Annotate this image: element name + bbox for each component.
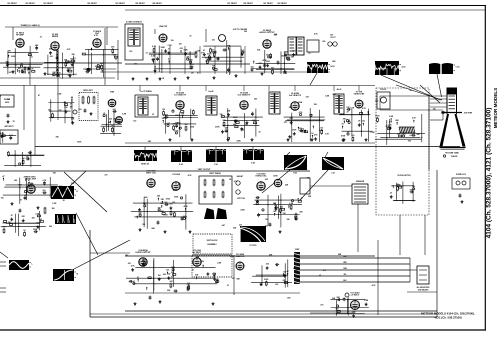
svg-text:TUNER (Ch. 94A95-3): TUNER (Ch. 94A95-3) bbox=[20, 24, 39, 27]
svg-text:330K: 330K bbox=[77, 142, 82, 144]
svg-text:2.2M: 2.2M bbox=[370, 132, 374, 134]
svg-text:VIDEO 60: VIDEO 60 bbox=[141, 164, 149, 166]
svg-text:330K: 330K bbox=[11, 56, 16, 58]
svg-text:S25 FRONT: S25 FRONT bbox=[135, 3, 145, 5]
svg-text:J 60: J 60 bbox=[331, 173, 335, 175]
svg-text:.001: .001 bbox=[177, 184, 181, 186]
svg-text:HEIGHT: HEIGHT bbox=[237, 176, 244, 178]
svg-text:E 60: E 60 bbox=[179, 164, 183, 166]
svg-text:METEOR MODELS: METEOR MODELS bbox=[493, 88, 498, 129]
svg-text:1/2W UNLESS: 1/2W UNLESS bbox=[418, 289, 429, 291]
svg-text:470K: 470K bbox=[174, 129, 179, 132]
svg-text:.047: .047 bbox=[215, 278, 219, 281]
svg-text:.047: .047 bbox=[166, 122, 170, 125]
svg-text:21ALP4: 21ALP4 bbox=[451, 155, 458, 158]
svg-text:.01: .01 bbox=[145, 52, 148, 54]
svg-text:.005: .005 bbox=[407, 140, 411, 142]
svg-text:470K: 470K bbox=[273, 174, 278, 177]
svg-text:F 60: F 60 bbox=[214, 164, 218, 166]
svg-text:.01: .01 bbox=[14, 65, 17, 67]
svg-text:.001: .001 bbox=[8, 72, 12, 74]
svg-text:270: 270 bbox=[239, 225, 242, 227]
svg-text:330K: 330K bbox=[188, 60, 193, 62]
svg-text:120: 120 bbox=[162, 109, 165, 111]
svg-text:47: 47 bbox=[3, 175, 5, 178]
svg-text:.001: .001 bbox=[172, 202, 176, 204]
svg-text:470K: 470K bbox=[207, 52, 212, 55]
svg-text:.001: .001 bbox=[169, 204, 173, 206]
svg-text:S24 FRONT: S24 FRONT bbox=[152, 2, 162, 5]
svg-text:.01: .01 bbox=[308, 53, 311, 55]
svg-text:.001: .001 bbox=[250, 66, 254, 68]
svg-text:S27 FRONT: S27 FRONT bbox=[227, 3, 237, 5]
svg-text:270: 270 bbox=[284, 122, 287, 124]
svg-text:4.5 MHz SOUND IF: 4.5 MHz SOUND IF bbox=[126, 21, 143, 24]
svg-text:2.2M: 2.2M bbox=[364, 300, 368, 302]
svg-text:560: 560 bbox=[49, 226, 52, 228]
svg-text:100: 100 bbox=[7, 99, 10, 101]
svg-text:S23 FRONT: S23 FRONT bbox=[25, 3, 35, 5]
svg-text:S25 FRONT: S25 FRONT bbox=[243, 3, 253, 5]
svg-text:.001: .001 bbox=[190, 64, 194, 66]
svg-text:560: 560 bbox=[336, 309, 339, 311]
svg-text:560: 560 bbox=[49, 49, 52, 51]
svg-text:.01: .01 bbox=[227, 285, 230, 287]
svg-text:.01: .01 bbox=[396, 184, 399, 186]
svg-text:120: 120 bbox=[433, 109, 436, 111]
svg-text:.001: .001 bbox=[127, 263, 131, 265]
svg-text:HORIZ OSC: HORIZ OSC bbox=[255, 176, 267, 178]
svg-text:2.2M: 2.2M bbox=[67, 69, 71, 71]
svg-text:47: 47 bbox=[28, 179, 30, 182]
svg-text:2.2M: 2.2M bbox=[164, 115, 168, 117]
svg-text:100: 100 bbox=[158, 275, 161, 277]
svg-text:560: 560 bbox=[145, 197, 148, 199]
svg-text:120: 120 bbox=[191, 73, 194, 75]
svg-text:.001: .001 bbox=[275, 284, 279, 286]
svg-text:47: 47 bbox=[152, 113, 154, 116]
svg-text:47: 47 bbox=[137, 276, 139, 279]
svg-text:.001: .001 bbox=[112, 109, 116, 111]
svg-text:120: 120 bbox=[347, 131, 350, 133]
svg-text:330K: 330K bbox=[236, 140, 241, 142]
svg-text:330K: 330K bbox=[33, 229, 38, 231]
svg-text:.047: .047 bbox=[305, 96, 309, 99]
svg-text:.047: .047 bbox=[169, 280, 173, 283]
svg-text:FOCUS: FOCUS bbox=[380, 89, 387, 91]
svg-text:VERT BLOCK: VERT BLOCK bbox=[207, 240, 219, 242]
svg-text:47: 47 bbox=[190, 35, 192, 38]
svg-text:.047: .047 bbox=[8, 221, 12, 224]
svg-text:330K: 330K bbox=[190, 127, 195, 129]
svg-text:270: 270 bbox=[201, 53, 204, 55]
svg-text:4104 (Ch. 528.37000), 4121 (Ch: 4104 (Ch. 528.37000), 4121 (Ch. 528.3710… bbox=[486, 108, 493, 239]
svg-text:560: 560 bbox=[164, 202, 167, 204]
svg-text:.005: .005 bbox=[265, 264, 269, 266]
svg-text:.001: .001 bbox=[18, 185, 22, 187]
svg-text:DAMPER: DAMPER bbox=[236, 255, 245, 258]
svg-text:120: 120 bbox=[134, 64, 137, 66]
svg-text:VERT LIN: VERT LIN bbox=[237, 198, 245, 200]
svg-text:JACK: JACK bbox=[5, 101, 10, 104]
svg-text:.005: .005 bbox=[179, 48, 183, 50]
svg-text:.01: .01 bbox=[73, 58, 76, 60]
svg-text:ASSEMBLY: ASSEMBLY bbox=[207, 243, 217, 246]
svg-text:330K: 330K bbox=[113, 118, 118, 120]
svg-text:470K: 470K bbox=[262, 59, 267, 62]
svg-text:47: 47 bbox=[301, 197, 303, 200]
svg-text:470K: 470K bbox=[171, 266, 176, 269]
svg-text:47: 47 bbox=[287, 270, 289, 273]
svg-text:330K: 330K bbox=[174, 196, 179, 198]
svg-text:RATIO DET: RATIO DET bbox=[83, 89, 93, 92]
svg-text:VERT TRANS: VERT TRANS bbox=[209, 172, 221, 175]
svg-text:100: 100 bbox=[309, 114, 312, 116]
svg-text:47: 47 bbox=[11, 214, 13, 217]
svg-text:470K: 470K bbox=[215, 125, 220, 128]
svg-text:.047: .047 bbox=[142, 259, 146, 262]
svg-text:120: 120 bbox=[299, 128, 302, 130]
svg-text:.01: .01 bbox=[39, 37, 42, 39]
svg-text:.005: .005 bbox=[264, 179, 268, 181]
svg-text:2.2M: 2.2M bbox=[57, 94, 61, 96]
svg-text:.01: .01 bbox=[192, 270, 195, 272]
svg-text:120: 120 bbox=[142, 224, 145, 226]
svg-text:2.2M: 2.2M bbox=[52, 203, 56, 205]
svg-text:PHONO MOTOR: PHONO MOTOR bbox=[398, 175, 412, 177]
svg-text:VIDEO DET: VIDEO DET bbox=[354, 94, 366, 96]
svg-text:2nd VIDEO IF: 2nd VIDEO IF bbox=[238, 95, 251, 97]
svg-text:270: 270 bbox=[259, 63, 262, 65]
svg-text:470K: 470K bbox=[175, 114, 180, 117]
svg-text:S23 FRONT: S23 FRONT bbox=[277, 3, 287, 5]
svg-text:.01: .01 bbox=[409, 135, 412, 137]
svg-text:H 60: H 60 bbox=[293, 173, 297, 175]
svg-text:.005: .005 bbox=[95, 66, 99, 68]
svg-text:2.2M: 2.2M bbox=[122, 114, 126, 116]
svg-text:100: 100 bbox=[1, 197, 4, 199]
svg-text:.005: .005 bbox=[39, 219, 43, 221]
svg-text:100: 100 bbox=[129, 51, 132, 53]
svg-text:100: 100 bbox=[20, 64, 23, 66]
svg-text:VERT OSC: VERT OSC bbox=[146, 173, 157, 175]
svg-text:560: 560 bbox=[52, 208, 55, 210]
svg-text:1st IF TRANS: 1st IF TRANS bbox=[140, 90, 152, 93]
svg-text:.047: .047 bbox=[21, 157, 25, 160]
svg-text:470K: 470K bbox=[24, 175, 29, 178]
svg-text:.047: .047 bbox=[108, 121, 112, 124]
svg-text:S23 FRONT: S23 FRONT bbox=[7, 3, 17, 5]
svg-text:K 15750: K 15750 bbox=[250, 245, 257, 247]
svg-text:S22 FRONT: S22 FRONT bbox=[87, 3, 97, 5]
svg-text:47: 47 bbox=[212, 49, 214, 52]
svg-text:2.2M: 2.2M bbox=[319, 130, 323, 132]
svg-text:560: 560 bbox=[14, 180, 17, 182]
svg-text:47: 47 bbox=[64, 101, 66, 104]
svg-text:560: 560 bbox=[32, 217, 35, 219]
svg-text:470K: 470K bbox=[183, 205, 188, 208]
svg-text:PICTURE TUBE: PICTURE TUBE bbox=[445, 153, 459, 155]
svg-text:120: 120 bbox=[362, 121, 365, 123]
svg-text:270: 270 bbox=[410, 189, 413, 191]
svg-text:560: 560 bbox=[412, 186, 415, 188]
svg-text:330K: 330K bbox=[233, 117, 238, 119]
svg-text:V8B: V8B bbox=[110, 92, 114, 94]
svg-text:47: 47 bbox=[319, 274, 321, 277]
svg-text:.001: .001 bbox=[166, 270, 170, 272]
svg-text:560: 560 bbox=[171, 272, 174, 274]
svg-text:S27 FRONT: S27 FRONT bbox=[263, 3, 273, 5]
svg-text:.047: .047 bbox=[295, 268, 299, 271]
svg-text:100: 100 bbox=[265, 219, 268, 221]
svg-text:.01: .01 bbox=[103, 113, 106, 115]
svg-text:2.2M: 2.2M bbox=[325, 95, 329, 97]
svg-text:.01: .01 bbox=[30, 57, 33, 59]
svg-text:.001: .001 bbox=[49, 56, 53, 58]
svg-text:A 60: A 60 bbox=[402, 65, 406, 68]
svg-text:.005: .005 bbox=[322, 41, 326, 43]
svg-text:47: 47 bbox=[347, 111, 349, 114]
svg-text:HV RECT: HV RECT bbox=[193, 252, 203, 254]
svg-text:RF AMP: RF AMP bbox=[16, 34, 24, 37]
svg-text:560: 560 bbox=[65, 191, 68, 193]
svg-text:270: 270 bbox=[59, 110, 62, 112]
svg-text:270: 270 bbox=[438, 100, 441, 102]
svg-text:.01: .01 bbox=[71, 97, 74, 99]
svg-text:S23 FRONT: S23 FRONT bbox=[115, 3, 125, 5]
svg-text:330K: 330K bbox=[264, 279, 269, 281]
svg-text:120: 120 bbox=[26, 156, 29, 158]
svg-text:2.2M: 2.2M bbox=[289, 203, 293, 205]
svg-text:.047: .047 bbox=[71, 217, 75, 220]
svg-text:120: 120 bbox=[201, 261, 204, 263]
svg-text:470K: 470K bbox=[176, 122, 181, 125]
svg-text:100: 100 bbox=[171, 40, 174, 42]
svg-text:.047: .047 bbox=[281, 54, 285, 57]
svg-text:MIXER: MIXER bbox=[52, 36, 59, 38]
svg-text:2.2M: 2.2M bbox=[389, 116, 393, 118]
svg-text:560: 560 bbox=[59, 186, 62, 188]
svg-text:V8A 6T8: V8A 6T8 bbox=[159, 25, 168, 28]
svg-text:330K: 330K bbox=[298, 102, 303, 104]
svg-text:470K: 470K bbox=[341, 135, 346, 138]
svg-text:B 60: B 60 bbox=[331, 66, 335, 68]
svg-text:2.2M: 2.2M bbox=[283, 73, 287, 75]
svg-text:330K: 330K bbox=[67, 61, 72, 63]
svg-text:.01: .01 bbox=[133, 281, 136, 283]
svg-text:100: 100 bbox=[265, 225, 268, 227]
svg-text:270: 270 bbox=[213, 273, 216, 275]
svg-text:.005: .005 bbox=[280, 207, 284, 209]
svg-text:SPEAKER: SPEAKER bbox=[356, 180, 365, 183]
svg-text:560: 560 bbox=[397, 133, 400, 135]
svg-text:270: 270 bbox=[320, 304, 323, 306]
svg-text:330K: 330K bbox=[161, 47, 166, 49]
svg-text:120: 120 bbox=[133, 121, 136, 123]
svg-text:330K: 330K bbox=[292, 129, 297, 131]
svg-text:YEL: YEL bbox=[343, 274, 346, 276]
svg-text:560: 560 bbox=[266, 54, 269, 56]
svg-text:4121 (Ch. 528.37100): 4121 (Ch. 528.37100) bbox=[434, 316, 461, 320]
svg-text:330K: 330K bbox=[240, 210, 245, 212]
svg-text:.01: .01 bbox=[21, 69, 24, 71]
svg-text:2.2M: 2.2M bbox=[168, 45, 172, 47]
svg-text:2nd IF: 2nd IF bbox=[208, 91, 214, 93]
svg-text:1st VIDEO IF: 1st VIDEO IF bbox=[174, 94, 187, 97]
svg-text:47: 47 bbox=[38, 94, 40, 97]
svg-text:S23 FRONT: S23 FRONT bbox=[43, 3, 53, 5]
svg-text:ION TRAP: ION TRAP bbox=[464, 112, 473, 115]
svg-text:560: 560 bbox=[109, 119, 112, 121]
svg-text:47: 47 bbox=[390, 191, 392, 194]
svg-text:330K: 330K bbox=[351, 312, 356, 314]
svg-text:330K: 330K bbox=[401, 133, 406, 135]
svg-text:.005: .005 bbox=[252, 120, 256, 122]
svg-text:120: 120 bbox=[179, 43, 182, 45]
svg-text:.005: .005 bbox=[162, 274, 166, 276]
svg-text:.001: .001 bbox=[42, 190, 46, 192]
svg-text:.047: .047 bbox=[113, 54, 117, 57]
svg-text:560: 560 bbox=[125, 255, 128, 257]
svg-text:HORIZ OUTPUT: HORIZ OUTPUT bbox=[136, 252, 152, 254]
svg-text:560: 560 bbox=[417, 134, 420, 136]
svg-text:V12 6S4: V12 6S4 bbox=[172, 173, 181, 176]
svg-text:330K: 330K bbox=[284, 52, 289, 54]
svg-text:C 60: C 60 bbox=[456, 66, 460, 68]
svg-text:G 60: G 60 bbox=[251, 163, 255, 165]
svg-text:.001: .001 bbox=[183, 216, 187, 218]
svg-text:560: 560 bbox=[271, 68, 274, 70]
svg-text:2.2M: 2.2M bbox=[217, 263, 221, 265]
svg-text:560: 560 bbox=[185, 124, 188, 126]
svg-text:3rd VIDEO IF: 3rd VIDEO IF bbox=[289, 95, 302, 97]
svg-text:120: 120 bbox=[351, 135, 354, 137]
svg-text:47: 47 bbox=[203, 49, 205, 52]
svg-text:100: 100 bbox=[330, 35, 333, 37]
svg-text:VERT OUTPUT: VERT OUTPUT bbox=[198, 169, 212, 171]
svg-text:.005: .005 bbox=[292, 50, 296, 52]
svg-text:LV RECT: LV RECT bbox=[351, 295, 360, 297]
svg-text:ANT INPUT: ANT INPUT bbox=[5, 125, 15, 128]
svg-text:270: 270 bbox=[68, 75, 71, 77]
svg-text:INTERLOCK: INTERLOCK bbox=[456, 174, 467, 176]
svg-text:270: 270 bbox=[232, 278, 235, 280]
svg-text:47: 47 bbox=[197, 72, 199, 75]
svg-text:.001: .001 bbox=[186, 57, 190, 59]
svg-text:47: 47 bbox=[259, 130, 261, 133]
svg-text:.047: .047 bbox=[221, 224, 225, 227]
svg-text:.001: .001 bbox=[212, 40, 216, 42]
svg-text:560: 560 bbox=[36, 223, 39, 225]
svg-text:470K: 470K bbox=[163, 213, 168, 216]
svg-text:330K: 330K bbox=[183, 49, 188, 51]
svg-text:270: 270 bbox=[105, 174, 108, 176]
svg-text:470K: 470K bbox=[166, 198, 171, 201]
svg-text:100: 100 bbox=[171, 277, 174, 279]
svg-text:560: 560 bbox=[139, 213, 142, 215]
svg-text:270: 270 bbox=[323, 270, 326, 272]
svg-text:560: 560 bbox=[254, 99, 257, 101]
svg-text:560: 560 bbox=[273, 203, 276, 205]
svg-text:560: 560 bbox=[375, 101, 378, 103]
